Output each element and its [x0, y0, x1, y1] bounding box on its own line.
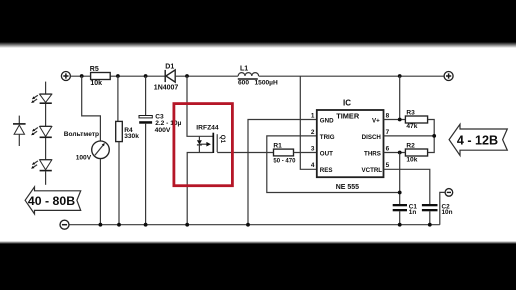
capacitor C2 — [422, 204, 453, 225]
wire voltmeter branch — [82, 76, 101, 141]
wire top rail left — [70, 75, 165, 77]
wire VCTRL pin5 — [384, 169, 430, 204]
C3 value label (partly covered by red box) — [155, 114, 182, 135]
node junction V+ riser — [398, 74, 402, 78]
svg-text:1: 1 — [311, 112, 315, 119]
LED chain wire top — [45, 82, 47, 95]
svg-text:OUT: OUT — [320, 151, 333, 158]
terminal minus input — [60, 220, 69, 229]
terminal plus input — [61, 72, 70, 81]
svg-text:IRFZ44: IRFZ44 — [196, 124, 219, 131]
svg-text:40 - 80В: 40 - 80В — [28, 194, 75, 208]
terminal plus output — [444, 72, 453, 81]
resistor R2 — [405, 143, 427, 164]
node junction R5 left — [80, 74, 84, 78]
wire top rail right — [259, 75, 445, 77]
svg-text:10k: 10k — [90, 80, 102, 87]
wire THRS pin6 — [384, 152, 406, 154]
wire RES pin4 riser — [300, 76, 317, 169]
svg-text:NE 555: NE 555 — [336, 184, 359, 191]
svg-text:L1: L1 — [240, 65, 248, 72]
gate wire to R1 — [217, 152, 273, 154]
svg-text:Q1: Q1 — [219, 135, 226, 144]
svg-text:VCTRL: VCTRL — [361, 167, 382, 174]
source wire — [187, 153, 212, 225]
resistor R1 — [273, 142, 316, 164]
wire R4 branch — [117, 76, 119, 121]
svg-text:7: 7 — [386, 129, 390, 136]
svg-text:6: 6 — [386, 145, 390, 152]
svg-text:TIMER: TIMER — [336, 111, 360, 120]
svg-text:10k: 10k — [406, 157, 417, 164]
node junction pin8 — [398, 118, 402, 122]
gate plate — [216, 134, 218, 152]
resistor R5 — [90, 66, 110, 87]
diode D1 — [154, 63, 179, 91]
LED D4 — [31, 160, 52, 171]
node junction C1 gnd — [398, 223, 402, 227]
node junction Q1 source gnd — [185, 223, 189, 227]
svg-text:RES: RES — [320, 167, 333, 174]
wire GND pin1 — [248, 120, 317, 225]
wire R3-R2 bracket — [428, 120, 435, 153]
svg-text:5: 5 — [386, 162, 390, 169]
node junction trig tie — [398, 191, 402, 195]
svg-text:R5: R5 — [90, 66, 99, 73]
svg-text:10n: 10n — [442, 209, 453, 216]
wire TRIG pin2 tie — [267, 136, 400, 193]
capacitor C1 — [393, 204, 418, 225]
wire V+ pin8 — [384, 119, 406, 121]
LED D3 — [31, 127, 52, 138]
node junction C2 gnd — [428, 223, 432, 227]
wire — [45, 138, 47, 160]
body diode — [198, 136, 200, 140]
svg-text:TRIG: TRIG — [320, 134, 335, 141]
node junction R4 top — [116, 74, 120, 78]
callout arrow 40-80V — [25, 187, 81, 214]
svg-text:330k: 330k — [124, 133, 139, 140]
op-amp U1 NE555 box — [317, 99, 384, 192]
node junction voltmeter gnd — [99, 223, 103, 227]
svg-text:4: 4 — [311, 162, 315, 169]
ground rail — [69, 224, 440, 226]
drain wire — [187, 76, 213, 136]
svg-text:100V: 100V — [76, 155, 92, 162]
node junction pin1 gnd — [246, 223, 250, 227]
svg-text:DISCH: DISCH — [362, 134, 382, 141]
wire — [45, 104, 47, 127]
svg-text:GND: GND — [320, 118, 334, 125]
terminal minus output — [440, 189, 453, 225]
svg-text:400V: 400V — [155, 127, 171, 134]
wire V+ riser — [399, 76, 401, 120]
top letterbox bar — [0, 0, 516, 48]
svg-text:50 - 470: 50 - 470 — [273, 159, 296, 165]
substrate arrow — [199, 143, 206, 145]
wire — [99, 159, 101, 225]
diode D5 spare — [13, 116, 26, 146]
node junction C3 gnd — [144, 223, 148, 227]
svg-text:R3: R3 — [406, 109, 415, 116]
channel bar — [212, 133, 214, 153]
node junction C3 top — [144, 74, 148, 78]
svg-text:4 - 12В: 4 - 12В — [457, 133, 498, 147]
svg-text:2.2 - 10µ: 2.2 - 10µ — [155, 120, 181, 127]
wire THRS riser to C1 — [399, 153, 401, 205]
resistor R3 — [405, 109, 427, 130]
node junction pin6 — [398, 151, 402, 155]
node junction Q1 drain — [185, 74, 189, 78]
transistor Q1 IRFZ44 — [187, 76, 274, 225]
wire — [45, 171, 47, 185]
wire DISCH pin7 — [384, 135, 435, 137]
wire top rail mid — [175, 75, 238, 77]
node junction pin7 — [432, 134, 436, 138]
red highlight box around Q1 — [174, 104, 233, 186]
svg-text:1N4007: 1N4007 — [154, 84, 179, 91]
svg-text:Вольтметр: Вольтметр — [64, 131, 99, 138]
callout arrow 4-12V — [449, 124, 507, 155]
svg-text:3: 3 — [311, 145, 315, 152]
inductor L1 — [238, 65, 278, 86]
wire — [118, 142, 120, 225]
voltmeter PV1 — [64, 131, 109, 162]
svg-text:R1: R1 — [273, 142, 282, 149]
node junction R4 gnd — [117, 223, 121, 227]
svg-text:1500µH: 1500µH — [255, 80, 278, 87]
svg-text:2: 2 — [311, 129, 315, 136]
resistor R4 — [116, 121, 140, 141]
svg-text:8: 8 — [386, 112, 390, 119]
svg-text:1n: 1n — [409, 209, 417, 216]
svg-text:D1: D1 — [165, 63, 174, 70]
svg-text:IC: IC — [343, 99, 351, 108]
svg-text:THRS: THRS — [364, 151, 381, 158]
svg-text:47k: 47k — [406, 123, 417, 130]
svg-text:600: 600 — [238, 80, 249, 87]
LED D2 — [31, 94, 52, 103]
capacitor C3 — [139, 76, 152, 225]
svg-text:V+: V+ — [372, 117, 380, 124]
bottom letterbox bar — [0, 241, 516, 290]
